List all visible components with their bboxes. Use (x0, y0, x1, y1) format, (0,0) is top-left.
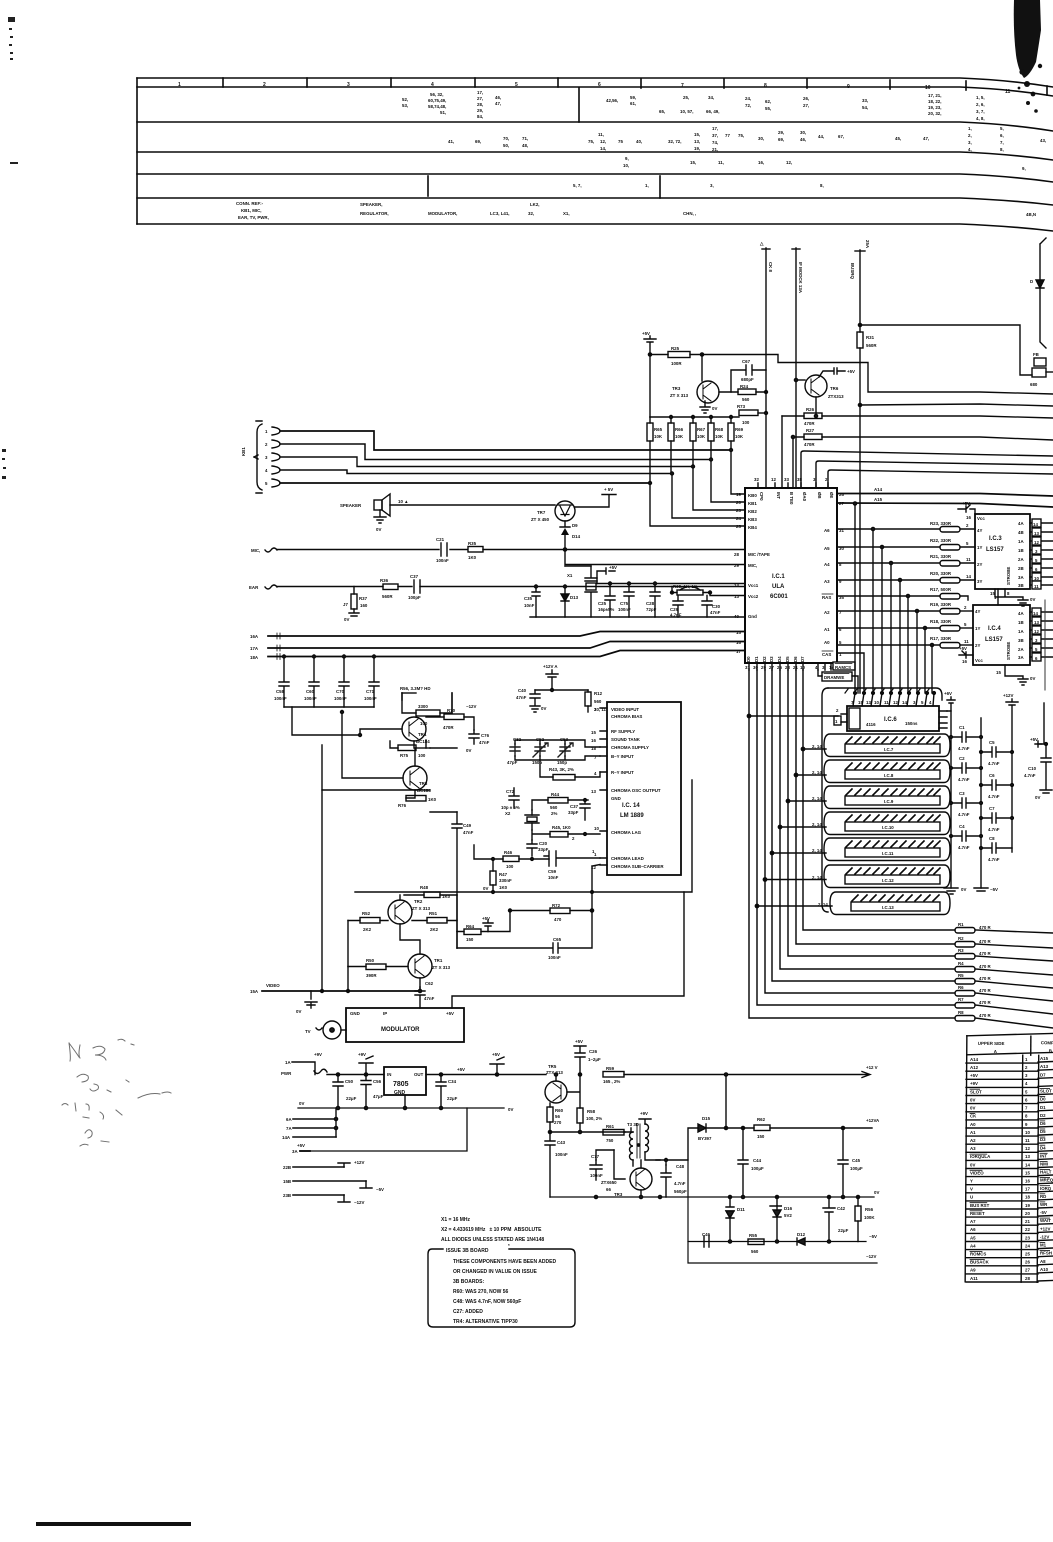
svg-text:FB: FB (1033, 352, 1039, 357)
svg-text:D14: D14 (572, 534, 581, 539)
svg-text:23: 23 (736, 508, 741, 513)
svg-text:A14: A14 (970, 1057, 979, 1062)
svg-text:15B: 15B (283, 1179, 291, 1184)
svg-text:R26: R26 (806, 407, 815, 412)
wire A14 (837, 494, 1053, 497)
svg-text:DRAMWE: DRAMWE (824, 675, 844, 680)
svg-text:23B: 23B (283, 1193, 291, 1198)
transistor TR8 BC184 (403, 766, 431, 793)
wire D3 (772, 670, 955, 981)
svg-text:D9: D9 (572, 523, 578, 528)
svg-text:EAR: EAR (249, 585, 259, 590)
svg-text:+9V: +9V (314, 1052, 322, 1057)
svg-text:TR8: TR8 (419, 781, 428, 786)
svg-text:X2: X2 (505, 811, 511, 816)
svg-text:470R: 470R (804, 442, 815, 447)
svg-text:5, 7,: 5, 7, (573, 183, 582, 188)
svg-text:61,: 61, (630, 101, 636, 106)
svg-text:R62: R62 (757, 1117, 766, 1122)
svg-text:ZT X 313: ZT X 313 (670, 393, 689, 398)
svg-text:STROBE: STROBE (1006, 567, 1011, 585)
svg-text:33,: 33, (862, 98, 868, 103)
stub 15B -5V (283, 1179, 384, 1192)
svg-text:D0: D0 (1040, 1097, 1046, 1102)
svg-text:+9V: +9V (640, 1111, 648, 1116)
capacitor C48 (661, 1160, 687, 1197)
svg-text:0V: 0V (508, 1107, 513, 1112)
svg-text:1K0: 1K0 (428, 797, 437, 802)
wire IC8 data (796, 774, 826, 776)
svg-text:66: 66 (606, 1187, 611, 1192)
wire MIC line (277, 549, 745, 551)
capacitor C42 (823, 1195, 849, 1241)
svg-text:5V2: 5V2 (784, 1213, 792, 1218)
svg-text:22B: 22B (283, 1165, 291, 1170)
resistor R19 (930, 587, 968, 600)
wire aux right 405 (860, 404, 1053, 406)
label RAMCS (833, 662, 855, 670)
svg-text:C1: C1 (959, 725, 965, 730)
svg-text:R21, 330R: R21, 330R (930, 554, 952, 559)
resistor R74 (398, 790, 437, 808)
note box ISSUE 3B (428, 1243, 575, 1327)
svg-text:14: 14 (1033, 522, 1038, 527)
resistor R5 (955, 973, 1053, 988)
svg-text:2B: 2B (1018, 566, 1024, 571)
wire A3 row (837, 579, 940, 581)
svg-text:3A: 3A (1018, 575, 1024, 580)
svg-text:+5V: +5V (1030, 737, 1038, 742)
svg-text:ISSUE 3B BOARD: ISSUE 3B BOARD (446, 1248, 489, 1254)
table row1 contents (402, 90, 985, 121)
svg-text:+12VA: +12VA (866, 1118, 880, 1123)
svg-text:+12V: +12V (1003, 693, 1013, 698)
wire CAS row (837, 653, 864, 693)
svg-text:27: 27 (1025, 1268, 1030, 1273)
svg-text:R60: R60 (555, 1108, 564, 1113)
svg-text:11: 11 (966, 557, 971, 562)
speaker SP (340, 494, 408, 532)
svg-text:4B: 4B (1018, 530, 1024, 535)
svg-text:15: 15 (1025, 1170, 1030, 1175)
svg-text:4.7nF: 4.7nF (674, 1181, 686, 1186)
wire page edge artifact (1044, 600, 1046, 690)
svg-text:A4: A4 (824, 562, 830, 567)
svg-text:GND: GND (611, 796, 621, 801)
capacitor C65 (457, 911, 592, 961)
svg-text:MIC,: MIC, (251, 548, 260, 553)
svg-text:△: △ (759, 241, 764, 246)
RAM IC10 (812, 812, 950, 835)
svg-text:R27: R27 (806, 428, 815, 433)
resistor R51 (412, 911, 457, 932)
svg-text:14,: 14, (600, 146, 606, 151)
capacitor C58 (274, 655, 289, 707)
svg-text:C10: C10 (1028, 766, 1037, 771)
svg-text:R58: R58 (587, 1109, 596, 1114)
wire chroma left vertical (430, 811, 457, 813)
svg-text:BY397: BY397 (698, 1136, 712, 1141)
svg-text:29,: 29, (778, 130, 784, 135)
svg-text:62,: 62, (765, 99, 771, 104)
resistor R56b 3.3M (400, 686, 452, 726)
svg-text:4Y: 4Y (977, 528, 982, 533)
svg-text:10p ± 5%: 10p ± 5% (501, 805, 520, 810)
svg-text:−5V: −5V (376, 1187, 384, 1192)
capacitor C8 (980, 836, 1012, 862)
svg-text:34,: 34, (708, 95, 714, 100)
svg-text:15: 15 (996, 670, 1001, 675)
resistor R48 (404, 885, 457, 899)
svg-text:3Y: 3Y (977, 579, 982, 584)
svg-text:LK2,: LK2, (530, 202, 540, 207)
resistor R12 (585, 690, 607, 712)
svg-text:R65: R65 (654, 427, 663, 432)
svg-text:+5V: +5V (492, 1052, 500, 1057)
VIDEO input line (250, 790, 422, 994)
svg-text:C70: C70 (336, 689, 345, 694)
svg-text:10nF: 10nF (524, 603, 535, 608)
svg-text:R75: R75 (400, 753, 409, 758)
svg-text:17A: 17A (250, 646, 259, 651)
svg-text:R76: R76 (398, 803, 407, 808)
svg-text:56, 32,: 56, 32, (430, 92, 443, 97)
capacitor C70 (334, 655, 349, 707)
svg-text:RD: RD (1040, 1194, 1046, 1199)
svg-text:RF SUPPLY: RF SUPPLY (611, 729, 635, 734)
svg-text:5,: 5, (1000, 126, 1004, 131)
svg-text:16,: 16, (758, 160, 764, 165)
stub 23B -12V (283, 1193, 364, 1205)
svg-text:KB1: KB1 (748, 501, 757, 506)
svg-text:74,: 74, (712, 140, 718, 145)
svg-text:1K0: 1K0 (468, 555, 477, 560)
svg-text:KB0: KB0 (748, 493, 757, 498)
svg-text:BUSRQ: BUSRQ (850, 263, 855, 279)
svg-text:0V: 0V (1035, 795, 1040, 800)
svg-text:11,: 11, (598, 132, 604, 137)
svg-text:54,: 54, (862, 105, 868, 110)
resistor R43 (540, 760, 600, 780)
svg-text:D7: D7 (1040, 1072, 1046, 1077)
svg-text:BUS RST: BUS RST (970, 1203, 990, 1208)
svg-text:3: 3 (347, 82, 350, 88)
svg-text:19: 19 (1025, 1203, 1030, 1208)
svg-text:D1: D1 (1040, 1105, 1046, 1110)
svg-text:4Y: 4Y (975, 609, 980, 614)
svg-text:2, 14: 2, 14 (818, 902, 828, 907)
svg-text:C48: C48 (676, 1164, 685, 1169)
power +12V label (866, 1065, 977, 1078)
svg-text:I.C.13: I.C.13 (882, 905, 894, 910)
svg-text:470R: 470R (804, 421, 815, 426)
svg-text:BC184: BC184 (416, 739, 430, 744)
svg-text:16: 16 (1025, 1179, 1030, 1184)
svg-text:ALL DIODES UNLESS STATED ARE: ALL DIODES UNLESS STATED ARE 1N4148 (441, 1237, 544, 1243)
table row2 contents (448, 126, 1046, 152)
svg-text:12: 12 (771, 477, 776, 482)
svg-text:1B: 1B (1018, 620, 1024, 625)
capacitor C62 (415, 981, 435, 1008)
svg-text:TR3: TR3 (614, 1192, 623, 1197)
resistor R75 (390, 741, 430, 758)
wire KB1 to ULA (711, 460, 745, 503)
svg-text:CHROMA OSC OUTPUT: CHROMA OSC OUTPUT (611, 788, 661, 793)
svg-text:THESE COMPONENTS HAVE BEEN ADD: THESE COMPONENTS HAVE BEEN ADDED (453, 1259, 556, 1265)
resistor R20 (930, 571, 975, 583)
svg-text:B–Y INPUT: B–Y INPUT (611, 754, 634, 759)
resistor R58 (577, 1108, 602, 1132)
svg-text:75,: 75, (588, 139, 594, 144)
svg-text:10,: 10, (623, 163, 629, 168)
svg-text:12: 12 (1025, 1146, 1030, 1151)
regulator 7805 (384, 1067, 426, 1108)
svg-text:4.7nF: 4.7nF (1024, 773, 1036, 778)
wire D2 (765, 670, 955, 993)
resistor R44 (532, 792, 588, 816)
svg-text:+5V: +5V (959, 646, 967, 651)
wire A2 row (837, 610, 940, 612)
svg-text:WAIT: WAIT (1040, 1218, 1051, 1223)
svg-text:29: 29 (734, 563, 739, 568)
svg-text:33pF: 33pF (538, 847, 549, 852)
capacitor C76 (466, 730, 490, 753)
IC3 right pins (1030, 519, 1053, 589)
svg-text:INT: INT (1040, 1153, 1047, 1158)
wire bus16A (268, 632, 745, 637)
svg-text:7805: 7805 (393, 1081, 409, 1088)
crystal X2 (525, 810, 539, 830)
svg-text:TR5: TR5 (548, 1064, 557, 1069)
svg-text:I.C.9: I.C.9 (884, 799, 894, 804)
svg-text:LS157: LS157 (986, 547, 1004, 553)
stub 6A 7A 14A (282, 1108, 338, 1140)
capacitor C72 (501, 788, 520, 816)
svg-text:R6: R6 (958, 985, 964, 990)
svg-text:R50: R50 (366, 958, 375, 963)
svg-text:14: 14 (734, 583, 739, 588)
resistor R67 (690, 416, 706, 469)
svg-text:+ 5V: + 5V (604, 487, 613, 492)
svg-text:CHROMA LAG: CHROMA LAG (611, 830, 642, 835)
svg-text:11: 11 (1025, 1138, 1030, 1143)
svg-text:10: 10 (874, 700, 879, 705)
svg-text:A2: A2 (824, 610, 830, 615)
wire R31 top to right component (860, 325, 1032, 375)
capacitor C26 (574, 1039, 601, 1076)
table row3 contents (623, 156, 1026, 171)
svg-text:A0: A0 (824, 640, 830, 645)
svg-text:CHROMA SUB–CARRIER: CHROMA SUB–CARRIER (611, 864, 664, 869)
resistor R56 (855, 1195, 875, 1241)
svg-text:D7: D7 (800, 656, 805, 662)
svg-text:ZT X 450: ZT X 450 (531, 517, 550, 522)
svg-text:47,: 47, (495, 101, 501, 106)
svg-text:B TE0: B TE0 (789, 492, 794, 505)
svg-text:I.C.6: I.C.6 (884, 717, 897, 723)
left edge registration marks (2, 17, 18, 479)
wire 7805 out (426, 1074, 546, 1076)
svg-text:TV: TV (305, 1029, 311, 1034)
svg-text:SPEAKER,: SPEAKER, (360, 202, 382, 207)
svg-text:165 , 2%: 165 , 2% (603, 1079, 620, 1084)
svg-text:COMP SI: COMP SI (1041, 1040, 1053, 1045)
svg-text:D16: D16 (784, 1206, 793, 1211)
svg-text:B: B (1049, 1048, 1052, 1053)
wire KB pin3 (280, 457, 693, 467)
svg-text:RAMCS: RAMCS (835, 665, 851, 670)
svg-text:+9V: +9V (970, 1081, 978, 1086)
trimmer C52 (532, 737, 548, 765)
svg-text:R73: R73 (737, 404, 746, 409)
svg-text:30: 30 (753, 665, 758, 670)
svg-text:31: 31 (745, 665, 750, 670)
MODULATOR box (346, 1008, 464, 1042)
svg-text:10K: 10K (697, 434, 706, 439)
svg-text:C20: C20 (539, 841, 548, 846)
svg-text:MIC /TAPE: MIC /TAPE (748, 552, 770, 557)
wire D7 (803, 670, 955, 930)
svg-text:4.7nF: 4.7nF (670, 613, 682, 618)
svg-text:1Y: 1Y (975, 626, 980, 631)
resistor R68 (708, 416, 724, 462)
svg-text:X1: X1 (567, 573, 573, 578)
wire IC11 data (772, 852, 826, 854)
power +9V arrow (358, 1052, 373, 1076)
svg-text:150ns: 150ns (905, 721, 918, 726)
svg-text:+12 V: +12 V (866, 1065, 878, 1070)
capacitor C57 (568, 799, 590, 820)
wire R25 to right step (702, 355, 1053, 395)
svg-text:10 ▲: 10 ▲ (398, 499, 408, 504)
svg-text:-12V: -12V (1040, 1235, 1049, 1240)
svg-text:R67: R67 (697, 427, 706, 432)
svg-text:11: 11 (1034, 584, 1039, 589)
svg-text:4.7nF: 4.7nF (958, 845, 970, 850)
resistor R25 (650, 346, 702, 366)
RAM IC13 (818, 892, 950, 915)
svg-text:A1: A1 (970, 1130, 976, 1135)
svg-text:2K2: 2K2 (430, 927, 439, 932)
power +5V R25 (642, 331, 656, 417)
svg-text:HALT: HALT (1040, 1170, 1052, 1175)
svg-text:0V: 0V (541, 706, 546, 711)
svg-text:ZTX650: ZTX650 (601, 1180, 617, 1185)
ground rail power (298, 1101, 513, 1112)
wire chroma return rail (355, 780, 692, 892)
svg-text:470: 470 (554, 917, 562, 922)
svg-text:R25: R25 (671, 346, 680, 351)
svg-text:C67: C67 (742, 359, 751, 364)
transistor TR2 ZTX313 (388, 899, 431, 924)
svg-text:0V: 0V (1030, 676, 1035, 681)
diode D15 (698, 1116, 726, 1141)
svg-text:100R: 100R (671, 361, 682, 366)
svg-text:+12V A: +12V A (543, 664, 558, 669)
transistor TR3 ZTX313 (670, 355, 719, 414)
svg-text:560: 560 (594, 699, 602, 704)
svg-text:TR6: TR6 (830, 386, 839, 391)
resistor R47 (483, 858, 512, 892)
IC3 LS157 (975, 514, 1030, 589)
svg-text:A5: A5 (824, 546, 830, 551)
svg-text:1K0: 1K0 (499, 885, 508, 890)
svg-text:LS157: LS157 (985, 637, 1003, 643)
capacitor C3 (950, 791, 983, 817)
svg-text:VIDEO: VIDEO (970, 1170, 984, 1175)
svg-text:+12V: +12V (1040, 1226, 1050, 1231)
svg-text:47μF: 47μF (373, 1094, 384, 1099)
svg-text:13: 13 (734, 594, 739, 599)
svg-text:ØE: ØE (829, 492, 834, 498)
svg-text:10K: 10K (654, 434, 663, 439)
svg-text:R47: R47 (499, 872, 508, 877)
svg-text:20, 32,: 20, 32, (928, 111, 941, 116)
svg-text:21,: 21, (712, 147, 718, 152)
svg-text:+5V: +5V (609, 565, 617, 570)
svg-text:4.7nF: 4.7nF (988, 857, 1000, 862)
svg-text:32,: 32, (528, 211, 534, 216)
svg-text:32: 32 (754, 477, 759, 482)
svg-text:TR7: TR7 (537, 510, 546, 515)
svg-text:C56: C56 (373, 1079, 382, 1084)
svg-text:46,: 46, (495, 95, 501, 100)
svg-text:KB4: KB4 (748, 525, 757, 530)
svg-text:R35: R35 (468, 541, 477, 546)
wire D0 (749, 670, 955, 1018)
resistor R59 (603, 1066, 870, 1084)
svg-text:STROBE: STROBE (1006, 642, 1011, 660)
svg-text:R7: R7 (958, 997, 964, 1002)
svg-text:0V: 0V (970, 1162, 975, 1167)
svg-text:EAR, TV, PWR,: EAR, TV, PWR, (238, 215, 269, 220)
svg-text:45,: 45, (895, 136, 901, 141)
svg-text:70,: 70, (503, 136, 509, 141)
svg-text:46,: 46, (800, 137, 806, 142)
IC1 ULA 6C001 (745, 488, 837, 663)
svg-text:A8: A8 (1040, 1259, 1046, 1264)
resistor R23 (930, 521, 975, 532)
svg-text:R43, 3K, 2%: R43, 3K, 2% (549, 767, 574, 772)
svg-text:100: 100 (742, 420, 750, 425)
capacitor C28 (646, 582, 660, 617)
svg-text:27,: 27, (803, 103, 809, 108)
svg-text:R2: R2 (958, 936, 964, 941)
svg-text:2, 14: 2, 14 (812, 875, 822, 880)
resistor R7 (955, 997, 1053, 1014)
ground rail caps (284, 706, 374, 708)
svg-text:+5V: +5V (962, 501, 970, 506)
svg-text:+5V: +5V (446, 1011, 454, 1016)
svg-text:A0: A0 (970, 1122, 976, 1127)
svg-text:27,: 27, (477, 96, 483, 101)
svg-text:47nF: 47nF (424, 996, 435, 1001)
svg-text:1,: 1, (968, 126, 972, 131)
svg-text:3A: 3A (1018, 655, 1024, 660)
svg-text:CHROMA BIAS: CHROMA BIAS (611, 714, 642, 719)
svg-text:C40: C40 (518, 688, 527, 693)
svg-text:21: 21 (793, 665, 798, 670)
connector PWR 9V (281, 1052, 384, 1076)
ground rail 2 (550, 1190, 879, 1199)
svg-text:10: 10 (1034, 576, 1039, 581)
svg-text:TR3: TR3 (672, 386, 681, 391)
power +12V RAM (1003, 693, 1018, 852)
svg-text:A10: A10 (1040, 1267, 1049, 1272)
svg-text:R3: R3 (958, 948, 964, 953)
wire IC9 data (788, 800, 826, 802)
svg-text:470 R: 470 R (979, 1000, 992, 1005)
